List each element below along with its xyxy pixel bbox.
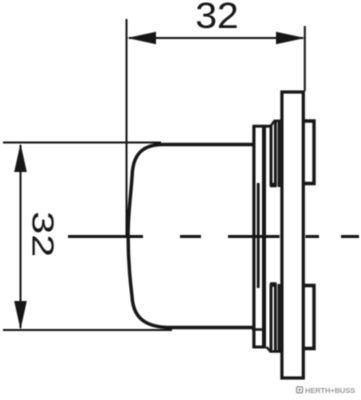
svg-text:32: 32 [26, 211, 61, 257]
svg-text:32: 32 [195, 0, 238, 35]
svg-text:HERTH+BUSS: HERTH+BUSS [305, 386, 355, 395]
